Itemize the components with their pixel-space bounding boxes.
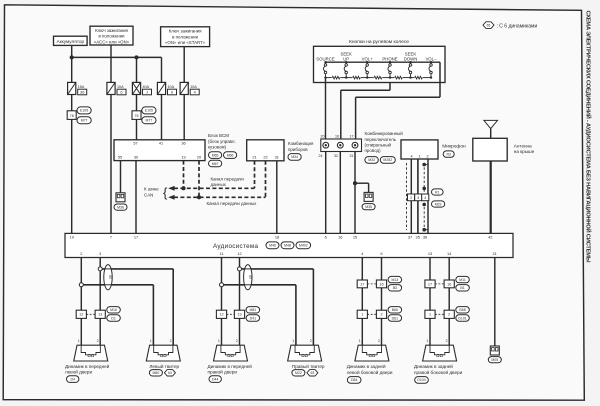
- svg-text:16: 16: [447, 282, 451, 286]
- svg-text:Левый твитер: Левый твитер: [149, 363, 179, 369]
- svg-text:19: 19: [181, 154, 185, 159]
- svg-text:36: 36: [80, 90, 84, 95]
- svg-text:SOURCE: SOURCE: [316, 56, 335, 61]
- svg-text:57: 57: [133, 140, 137, 145]
- svg-text:M80: M80: [152, 371, 159, 375]
- svg-text:11: 11: [219, 251, 223, 256]
- svg-text:Динамик в передней: Динамик в передней: [65, 363, 110, 369]
- svg-text:35: 35: [416, 235, 420, 240]
- svg-text:«АСС» или «ОN»: «АСС» или «ОN»: [94, 39, 130, 44]
- svg-text:Комбинированный: Комбинированный: [365, 130, 404, 136]
- svg-text:Канал передачи: Канал передачи: [211, 176, 245, 181]
- svg-text:кузовом): кузовом): [208, 144, 226, 149]
- svg-text:2: 2: [170, 339, 172, 343]
- svg-text:1: 1: [292, 339, 294, 343]
- svg-text:2: 2: [426, 154, 428, 158]
- svg-text:2: 2: [310, 339, 312, 343]
- svg-text:2: 2: [380, 313, 382, 317]
- svg-text:2: 2: [80, 251, 82, 256]
- svg-text:R1: R1: [435, 190, 440, 194]
- svg-text:M46: M46: [269, 244, 276, 248]
- svg-text:ΩΩ: ΩΩ: [301, 353, 308, 358]
- svg-text:31: 31: [275, 154, 279, 159]
- svg-text:PHONE: PHONE: [382, 56, 397, 61]
- svg-text:К шине: К шине: [144, 187, 159, 192]
- svg-text:D104: D104: [417, 378, 425, 382]
- svg-text:6: 6: [325, 235, 327, 240]
- svg-text:2: 2: [410, 196, 412, 200]
- svg-text:36: 36: [423, 235, 427, 240]
- svg-text:E105: E105: [145, 109, 153, 113]
- svg-text:CAN: CAN: [144, 193, 153, 198]
- svg-text:16: 16: [335, 135, 339, 139]
- svg-text:17: 17: [350, 135, 354, 139]
- svg-text:Динамик в передней: Динамик в передней: [208, 363, 253, 369]
- svg-text:(блок управл.: (блок управл.: [208, 139, 236, 144]
- svg-text:65: 65: [487, 23, 491, 27]
- svg-text:2: 2: [446, 339, 448, 343]
- svg-text:15A: 15A: [78, 85, 85, 89]
- svg-text:B1: B1: [460, 286, 464, 290]
- svg-text:M402: M402: [299, 244, 308, 248]
- svg-text:M33: M33: [368, 158, 375, 162]
- svg-text:СХЕМА ЭЛЕКТРИЧЕСКИХ СОЕДИНЕНИЙ: СХЕМА ЭЛЕКТРИЧЕСКИХ СОЕДИНЕНИЙ - АУДИОСИ…: [585, 11, 593, 263]
- svg-text:18: 18: [275, 235, 279, 240]
- svg-text:3: 3: [99, 251, 101, 256]
- svg-text:Аудиосистема: Аудиосистема: [213, 243, 259, 250]
- svg-text:65: 65: [248, 275, 252, 279]
- svg-text:16: 16: [379, 282, 383, 286]
- svg-text:Антенна: Антенна: [514, 144, 532, 149]
- svg-text:M35: M35: [365, 205, 372, 209]
- svg-text:24: 24: [319, 154, 323, 158]
- svg-text:42: 42: [488, 235, 492, 240]
- svg-text:в положении: в положении: [172, 34, 199, 39]
- svg-text:63: 63: [310, 371, 314, 375]
- svg-text:1: 1: [78, 339, 80, 343]
- svg-text:10A: 10A: [168, 85, 175, 89]
- svg-text:M34: M34: [291, 155, 298, 159]
- svg-text:4: 4: [424, 196, 426, 200]
- svg-text:32: 32: [334, 154, 338, 158]
- svg-text:M16: M16: [110, 308, 117, 312]
- svg-text:UP: UP: [343, 56, 349, 61]
- svg-text:приборов: приборов: [288, 147, 308, 152]
- svg-text:B68: B68: [459, 308, 465, 312]
- svg-text:Ключ зажигания: Ключ зажигания: [95, 28, 128, 33]
- svg-text:12: 12: [237, 251, 241, 256]
- svg-text:40A: 40A: [143, 85, 150, 89]
- svg-text:ΩΩ: ΩΩ: [368, 353, 375, 358]
- svg-text:Правый твитер: Правый твитер: [292, 363, 325, 369]
- svg-text:M05: M05: [491, 358, 498, 362]
- svg-text:Кнопки на рулевом колесе: Кнопки на рулевом колесе: [349, 39, 409, 45]
- svg-text:M77: M77: [81, 118, 88, 122]
- svg-text:Блок BCM: Блок BCM: [208, 133, 229, 138]
- svg-text:правой боковой двери: правой боковой двери: [414, 369, 463, 375]
- svg-text:Аккумулятор: Аккумулятор: [56, 39, 84, 44]
- svg-text:17: 17: [134, 235, 138, 240]
- svg-text:переключатель: переключатель: [365, 137, 397, 142]
- svg-text:M23: M23: [435, 202, 442, 206]
- svg-text:12: 12: [79, 313, 83, 317]
- svg-text:Динамик в задней: Динамик в задней: [414, 363, 453, 369]
- svg-text:1: 1: [361, 313, 363, 317]
- svg-text:левой двери: левой двери: [65, 369, 92, 375]
- svg-text:1: 1: [150, 339, 152, 343]
- svg-text:13: 13: [237, 313, 241, 317]
- svg-text:1: 1: [359, 339, 361, 343]
- svg-text:1: 1: [429, 313, 431, 317]
- svg-text:M22: M22: [295, 371, 302, 375]
- svg-text:2: 2: [378, 339, 380, 343]
- svg-text:13: 13: [428, 251, 432, 256]
- svg-text:15: 15: [353, 235, 357, 240]
- svg-text:M66: M66: [227, 153, 234, 157]
- svg-text:20: 20: [321, 135, 325, 139]
- svg-text:левой боковой двери: левой боковой двери: [347, 369, 393, 375]
- svg-text:в положении: в положении: [99, 34, 126, 39]
- svg-text:J: J: [146, 90, 148, 95]
- svg-text:21: 21: [252, 154, 256, 159]
- svg-text:B66: B66: [392, 308, 398, 312]
- svg-text:12: 12: [219, 313, 223, 317]
- svg-text:Ключ зажигания: Ключ зажигания: [169, 29, 202, 34]
- svg-text:31: 31: [350, 154, 354, 158]
- svg-text:M81: M81: [249, 308, 256, 312]
- svg-text:DOWN: DOWN: [404, 56, 418, 61]
- svg-text:37: 37: [408, 235, 412, 240]
- svg-text:63: 63: [168, 371, 172, 375]
- svg-text:данных: данных: [211, 182, 227, 187]
- svg-text:19: 19: [70, 235, 74, 240]
- svg-text:D4: D4: [70, 377, 75, 381]
- svg-text:16: 16: [338, 235, 342, 240]
- svg-text:Комбинация: Комбинация: [288, 141, 314, 146]
- svg-text:5: 5: [380, 251, 382, 256]
- svg-text:M48: M48: [284, 244, 291, 248]
- svg-text:13: 13: [98, 313, 102, 317]
- svg-text:31: 31: [492, 251, 496, 256]
- svg-text:«ON» или «START»: «ON» или «START»: [165, 40, 206, 45]
- svg-text:D81: D81: [392, 316, 398, 320]
- svg-text:D41: D41: [250, 316, 256, 320]
- svg-text:2: 2: [97, 339, 99, 343]
- svg-text:ΩΩ: ΩΩ: [160, 353, 167, 358]
- svg-text:3: 3: [417, 196, 419, 200]
- svg-text:65: 65: [108, 275, 112, 279]
- svg-text:55: 55: [118, 154, 122, 159]
- svg-text:D44: D44: [212, 377, 218, 381]
- svg-text:Микрофон: Микрофон: [442, 144, 466, 150]
- svg-text:{: {: [163, 185, 168, 200]
- svg-text:R3: R3: [446, 152, 451, 156]
- svg-text:7: 7: [110, 235, 112, 240]
- svg-text:M36: M36: [117, 205, 124, 209]
- svg-text:6: 6: [120, 90, 122, 95]
- svg-text:D101: D101: [458, 316, 466, 320]
- svg-text:76: 76: [70, 114, 74, 118]
- svg-text:M252: M252: [383, 158, 392, 162]
- svg-text:M65: M65: [212, 153, 219, 157]
- svg-text:17: 17: [428, 282, 432, 286]
- svg-text:17: 17: [360, 282, 364, 286]
- svg-text:10A: 10A: [190, 85, 197, 89]
- svg-text:на крыше: на крыше: [514, 149, 535, 154]
- svg-text:1: 1: [418, 154, 420, 158]
- svg-text:ΩΩ: ΩΩ: [436, 353, 443, 358]
- svg-text:2: 2: [236, 339, 238, 343]
- svg-text:VOL−: VOL−: [425, 56, 437, 61]
- svg-text:D1: D1: [111, 316, 116, 320]
- svg-text:41: 41: [159, 140, 163, 145]
- svg-text:ΩΩ: ΩΩ: [227, 353, 234, 358]
- svg-text:ΩΩ: ΩΩ: [87, 353, 94, 358]
- svg-text:2: 2: [448, 313, 450, 317]
- svg-text:4: 4: [410, 154, 412, 158]
- svg-text:E105: E105: [80, 109, 88, 113]
- svg-text:1: 1: [218, 339, 220, 343]
- svg-text:D84: D84: [351, 378, 357, 382]
- svg-text:VOL+: VOL+: [362, 56, 374, 61]
- svg-text:36: 36: [181, 140, 185, 145]
- svg-text:: С 6 динамиками: : С 6 динамиками: [497, 23, 538, 29]
- svg-text:M67: M67: [212, 162, 219, 166]
- svg-text:Динамик в задней: Динамик в задней: [347, 363, 386, 369]
- svg-text:10A: 10A: [117, 85, 124, 89]
- svg-text:22: 22: [263, 154, 267, 159]
- svg-text:Канал передачи данных: Канал передачи данных: [207, 201, 258, 206]
- svg-text:9: 9: [171, 90, 173, 95]
- svg-text:B3: B3: [393, 286, 397, 290]
- svg-text:провод): провод): [365, 148, 382, 153]
- svg-text:M11: M11: [459, 278, 466, 282]
- svg-text:M77: M77: [145, 118, 152, 122]
- svg-text:(спиральный: (спиральный: [365, 141, 392, 147]
- svg-text:1: 1: [426, 339, 428, 343]
- svg-text:M13: M13: [391, 278, 398, 282]
- svg-text:правой двери: правой двери: [208, 369, 238, 375]
- svg-text:76: 76: [134, 114, 138, 118]
